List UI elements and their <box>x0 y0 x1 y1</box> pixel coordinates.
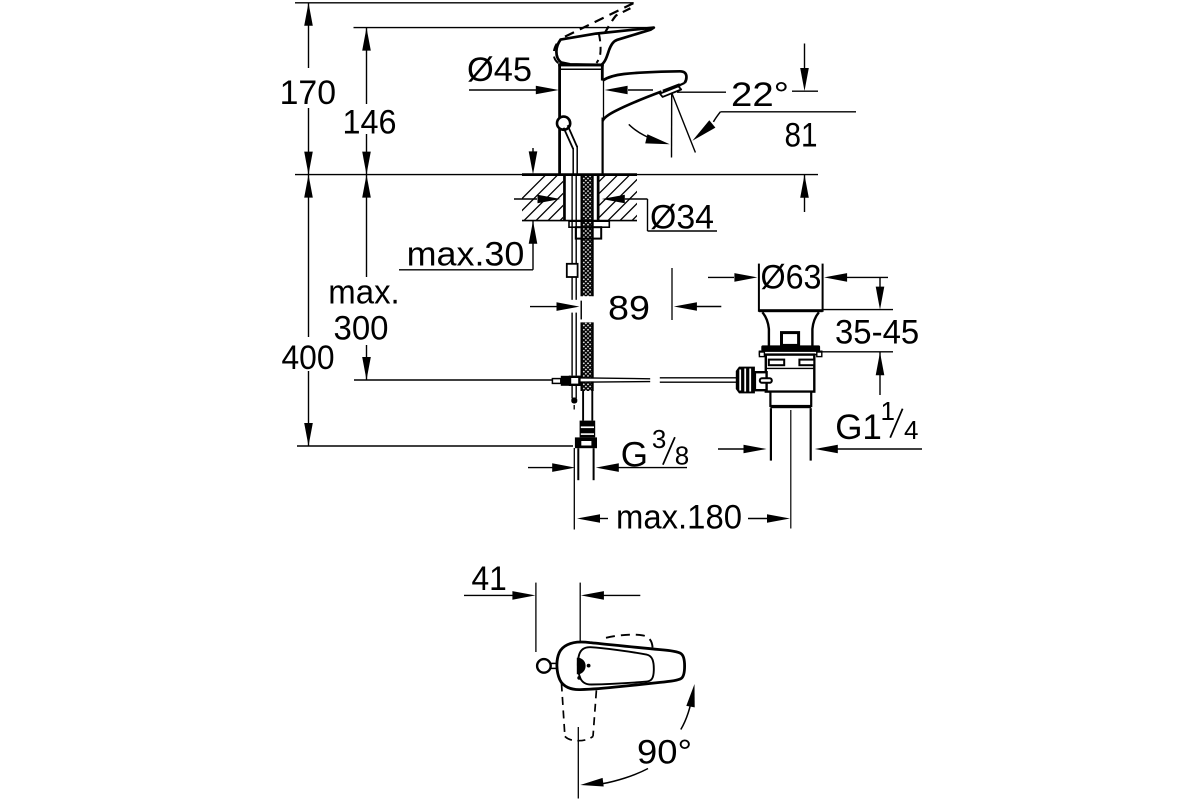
svg-text:170: 170 <box>280 74 336 112</box>
pull rod connector <box>567 264 578 277</box>
Ø34 leader <box>648 199 718 231</box>
max.300 level line (pop-up rod level) <box>354 379 553 381</box>
svg-text:400: 400 <box>282 339 335 377</box>
dimension 89 right arrow <box>674 302 721 311</box>
max.180 left extension line <box>573 448 575 530</box>
dimension G11/4 left arrow <box>718 445 767 454</box>
label 22° <box>731 76 789 114</box>
22deg outlet reference line <box>677 91 818 92</box>
drain seal ring <box>761 345 820 351</box>
spout outlet face <box>678 83 684 86</box>
dimension 146 vertical line <box>362 28 371 175</box>
dimension 35-45 upper arrow <box>876 277 885 309</box>
svg-text:4: 4 <box>904 415 918 445</box>
89 extension line (spout axis) <box>671 268 673 320</box>
G3/8 nipple <box>578 448 593 480</box>
svg-text:Ø34: Ø34 <box>650 199 714 237</box>
drain body seam <box>766 367 814 369</box>
label G3/8 <box>621 424 690 474</box>
dimension Ø45 right arrow <box>605 86 653 95</box>
drain body slots <box>769 360 815 366</box>
svg-text:max.: max. <box>328 274 399 312</box>
svg-text:G: G <box>621 436 648 475</box>
shank washer <box>569 221 609 227</box>
drain centreline <box>790 410 792 529</box>
dimension 89 left arrow <box>530 302 580 311</box>
label Ø45 <box>467 51 532 89</box>
dimension max.180 left arrow <box>577 514 608 523</box>
hose nut <box>575 437 597 448</box>
faucet lever raised (dashed) underside <box>605 6 635 33</box>
drain lower body <box>770 392 811 406</box>
max.30 lower arrow <box>529 221 538 270</box>
flexible hose braid upper <box>582 175 593 297</box>
pull-rod knob stem <box>564 125 578 174</box>
deck hatching <box>500 175 690 221</box>
hose compression fitting <box>580 421 596 438</box>
90deg arc upper <box>681 684 695 730</box>
pop-up rod horizontal left segment <box>578 378 650 382</box>
label 81 <box>785 117 818 155</box>
spout top edge and nose <box>603 71 687 83</box>
svg-text:max.30: max.30 <box>407 236 525 274</box>
flexible hose braid lower <box>582 322 593 391</box>
faucet lever (closed position) <box>556 28 653 65</box>
svg-text:Ø63: Ø63 <box>761 259 822 297</box>
label Ø63 <box>761 259 822 297</box>
deck hole edge right <box>597 174 600 221</box>
dimension 81 upper arrow <box>800 44 809 92</box>
drain head bottom edge <box>759 309 823 312</box>
svg-text:max.180: max.180 <box>616 498 742 536</box>
pull-rod knob ball <box>557 117 570 130</box>
label max.300 <box>328 274 399 348</box>
label 146 <box>343 104 397 142</box>
deck underside line <box>522 220 637 222</box>
dimension max.180 right arrow <box>748 514 790 523</box>
label 90° <box>637 733 692 771</box>
faucet body right edge lower <box>601 118 603 175</box>
drain rod connector <box>755 372 767 390</box>
Ø45 extension line (body right edge) <box>603 80 605 118</box>
dimension G3/8 left arrow <box>528 463 575 472</box>
400 level line <box>297 445 573 447</box>
drain plug knob <box>782 333 799 346</box>
label 41 <box>472 560 507 598</box>
hose smooth tube <box>583 391 592 421</box>
dimension 41 left arrow <box>464 591 535 600</box>
faucet lever raised (dashed) knob arc <box>554 44 563 66</box>
pop-up rod pivot housing <box>570 377 579 385</box>
shank nut <box>576 227 601 238</box>
reference line: lever top (146 level) <box>354 27 653 29</box>
22deg slanted line <box>672 93 696 153</box>
aerator dark band <box>663 85 680 92</box>
dimension Ø34 arrows <box>514 195 648 204</box>
svg-text:89: 89 <box>608 289 650 327</box>
41 extension line right <box>579 583 581 646</box>
drain valve body <box>766 355 815 392</box>
svg-text:146: 146 <box>343 104 397 142</box>
svg-text:8: 8 <box>675 441 689 471</box>
aerator outline <box>660 86 681 97</box>
drain knurled nut <box>736 367 755 394</box>
22deg leader with arc <box>692 112 856 141</box>
label max.30 <box>407 236 525 274</box>
svg-text:35-45: 35-45 <box>835 314 919 352</box>
dimension Ø63 left arrow <box>708 273 757 282</box>
svg-text:G1: G1 <box>835 408 882 447</box>
90deg arc lower <box>580 769 648 787</box>
faucet lever raised (dashed) top edge <box>565 3 634 37</box>
dimension 170 vertical line <box>304 3 313 175</box>
faucet lever raised (dashed) front edge <box>596 33 600 63</box>
35-45 lower reference line <box>822 351 893 353</box>
89 extension tick <box>580 301 582 319</box>
svg-text:41: 41 <box>472 560 507 598</box>
drain lower body bottom band <box>770 406 811 409</box>
label 35-45 <box>835 314 919 352</box>
top view lever inner face <box>578 647 654 684</box>
dimension 400 vertical line <box>304 175 313 446</box>
faucet cap (lever base plate) <box>558 63 604 69</box>
top view handle 90deg position (dashed) <box>562 684 597 741</box>
pop-up rod horizontal right segment <box>660 378 736 382</box>
max.30 upper arrow <box>529 148 538 174</box>
dimension Ø63 right arrow <box>824 273 888 282</box>
pull rod below deck <box>572 175 576 399</box>
drain head sides <box>759 264 823 312</box>
label G1 1/4 <box>835 396 918 447</box>
drain rod pin <box>760 378 772 383</box>
41 extension line left <box>535 583 537 652</box>
22deg vertical line <box>671 93 673 158</box>
faucet body right edge upper <box>601 64 604 81</box>
bottom view centreline <box>577 727 579 799</box>
pop-up rod clamp block <box>561 376 570 386</box>
dimension 81 lower arrow <box>800 175 809 212</box>
drain washer plate <box>759 351 821 356</box>
dimension 41 right arrow <box>581 591 640 600</box>
label max.180 <box>616 498 742 536</box>
top view cartridge mark <box>577 658 586 674</box>
svg-text:22°: 22° <box>731 76 789 114</box>
top view dots <box>577 664 590 680</box>
svg-text:90°: 90° <box>637 733 692 771</box>
drain neck <box>762 312 819 345</box>
label Ø34 <box>650 199 714 237</box>
max.30 leader underline <box>399 269 533 271</box>
reference line: raised lever top (170 level) <box>295 2 634 4</box>
pop-up rod clamp collar <box>552 379 560 384</box>
svg-text:Ø45: Ø45 <box>467 51 532 89</box>
dimension Ø45 left arrow <box>469 86 559 95</box>
hose break centreline tick <box>580 301 582 320</box>
dimension G11/4 right arrow <box>815 445 922 454</box>
dimension G3/8 right arrow <box>596 463 687 472</box>
svg-text:3: 3 <box>652 424 666 454</box>
label 170 <box>280 74 336 112</box>
top view handle rotated (dashed) <box>606 635 653 648</box>
svg-text:81: 81 <box>785 117 818 155</box>
label 400 <box>282 339 335 377</box>
countertop deck line <box>295 174 818 176</box>
dimension max.300 vertical line <box>362 175 371 380</box>
label 89 <box>608 289 650 327</box>
dimension 35-45 lower arrow <box>876 352 885 395</box>
top view knob ball <box>537 659 551 673</box>
top view knob link <box>551 663 558 668</box>
deck hole edge left <box>563 174 566 221</box>
top view handle outline <box>557 642 685 690</box>
drain tailpipe <box>771 408 811 460</box>
faucet body left edge <box>558 64 561 175</box>
svg-text:300: 300 <box>334 310 389 348</box>
svg-text:1: 1 <box>881 396 895 426</box>
22deg swing arc left <box>629 124 670 144</box>
spout underside <box>603 92 662 122</box>
35-45 upper reference line <box>823 309 893 311</box>
pull rod lower tip <box>571 398 577 410</box>
